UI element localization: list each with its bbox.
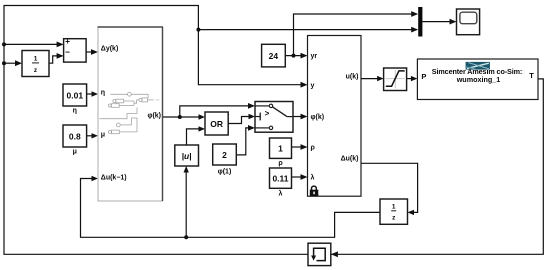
svg-text:η: η xyxy=(73,108,77,115)
wire phi(k) from estimator to OR top input xyxy=(163,116,203,118)
scope block xyxy=(457,9,480,35)
node junction yr xyxy=(292,54,296,58)
svg-text:η: η xyxy=(101,90,105,97)
svg-text:μ: μ xyxy=(73,149,77,156)
svg-text:+: + xyxy=(65,36,70,46)
svg-text:0.11: 0.11 xyxy=(272,174,288,184)
svg-text:λ: λ xyxy=(279,189,283,197)
wire yr up to mux upper input xyxy=(294,14,416,56)
svg-text:|u|: |u| xyxy=(182,151,192,161)
svg-text:wumoxing_1: wumoxing_1 xyxy=(456,75,501,84)
svg-text:ρ: ρ xyxy=(311,145,316,152)
node junction on left border (to sum) xyxy=(2,42,6,46)
constant 2 block xyxy=(213,144,237,176)
constant 0.01 block xyxy=(63,84,87,115)
wire constant 2 out to switch bottom input xyxy=(236,128,252,155)
wire junction up to abs input xyxy=(185,169,187,237)
abs block |u| xyxy=(175,145,199,166)
wire y down to controller y port xyxy=(198,30,304,85)
loop break block xyxy=(308,243,331,265)
wire 0.8 to estimator mu input xyxy=(87,135,95,137)
wire constant 24 to controller yr input xyxy=(285,55,304,57)
wire du(k) out right and down into unit delay 2 (flipped) xyxy=(361,163,418,212)
svg-text:2: 2 xyxy=(222,150,227,160)
svg-text:24: 24 xyxy=(269,51,279,61)
svg-text:φ(k): φ(k) xyxy=(147,112,161,119)
wire mux out to scope xyxy=(422,21,453,23)
svg-text:y: y xyxy=(311,82,315,89)
wire unit delay out to sum minus input xyxy=(49,56,60,63)
svg-text:OR: OR xyxy=(210,119,223,129)
constant 0.8 block xyxy=(63,125,87,156)
svg-text:λ: λ xyxy=(311,174,315,182)
wire switch out to controller phi(k) input xyxy=(294,116,305,118)
svg-text:>: > xyxy=(265,109,270,118)
svg-text:μ: μ xyxy=(101,131,105,138)
Amesim logo xyxy=(466,62,490,70)
svg-text:0.01: 0.01 xyxy=(67,90,84,100)
svg-text:φ(1): φ(1) xyxy=(218,169,232,176)
sum block S1 xyxy=(64,36,87,62)
unit delay Z1 block xyxy=(22,51,49,77)
saturation block xyxy=(384,68,407,91)
svg-text:Δy(k): Δy(k) xyxy=(101,46,118,53)
svg-text:u(k): u(k) xyxy=(346,74,359,81)
node junction y split xyxy=(196,28,200,32)
wire left border to sum plus input xyxy=(4,43,60,45)
svg-text:ρ: ρ xyxy=(278,160,283,167)
wire u(k) to saturation xyxy=(361,78,381,80)
mux block xyxy=(418,7,422,37)
wire constant 0.11 to controller lambda input xyxy=(292,176,305,178)
svg-text:−: − xyxy=(65,47,70,57)
wire feedback continues left of loop block up left border to top xyxy=(4,6,308,255)
svg-text:1: 1 xyxy=(34,56,38,63)
svg-text:P: P xyxy=(421,72,426,81)
svg-text:φ(k): φ(k) xyxy=(311,114,325,121)
wire phi(k) up to switch top input xyxy=(180,106,252,117)
estimator icon (faint preview schematic) xyxy=(99,92,159,133)
switch block xyxy=(255,102,293,133)
svg-text:1: 1 xyxy=(392,204,396,211)
wire constant 1 to controller rho input xyxy=(292,146,305,148)
wire left border to unit delay input xyxy=(4,62,19,64)
lock badge on controller xyxy=(310,186,319,196)
wire unit delay 2 out left down and to estimator du(k-1) input xyxy=(81,179,381,238)
node junction on left border (to unit delay) xyxy=(2,61,6,65)
svg-text:T: T xyxy=(529,71,534,80)
node junction on feedback to abs xyxy=(184,235,188,239)
wire 0.01 to estimator eta input xyxy=(87,93,95,95)
wire arrow into loop block right side xyxy=(331,251,338,257)
estimator subsystem block xyxy=(98,27,164,201)
constant 0.11 block xyxy=(270,168,292,197)
controller subsystem block xyxy=(308,36,362,197)
wire sum out to estimator dy input xyxy=(86,51,94,53)
svg-text:0.8: 0.8 xyxy=(69,131,81,141)
svg-text:yr: yr xyxy=(311,53,318,60)
wire OR out to switch criterion input xyxy=(228,117,252,124)
constant 1 block xyxy=(270,138,292,167)
wire abs out to OR bottom input xyxy=(187,129,203,145)
OR logic block xyxy=(205,112,228,135)
svg-text:Δu(k): Δu(k) xyxy=(341,155,359,162)
constant 24 block xyxy=(262,44,286,67)
Amesim co-sim block xyxy=(417,59,538,100)
wire saturation out to Amesim P xyxy=(407,78,415,80)
wire y to mux lower input xyxy=(198,29,415,31)
svg-text:1: 1 xyxy=(278,144,283,154)
wire main feedback loop from Amesim T down along right, bottom, left and top xyxy=(331,79,543,254)
svg-text:Δu(k−1): Δu(k−1) xyxy=(101,174,127,181)
node junction phi(k) xyxy=(178,115,182,119)
unit delay Z2 block (flipped) xyxy=(380,199,408,224)
